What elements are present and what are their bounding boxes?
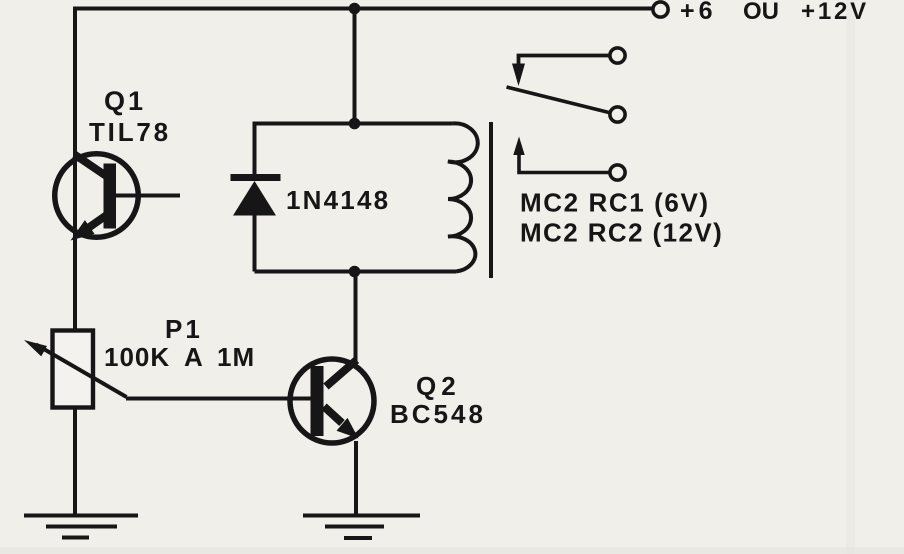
label Q1 [104,86,146,116]
svg-text:+6: +6 [680,0,717,25]
node: junction dot on +V rail above relay [349,3,361,15]
wire: left vertical from +V rail down to P1 (through Q1) [73,7,77,332]
wire: +V rail (top horizontal) [75,7,652,11]
svg-text:+12V: +12V [801,0,869,25]
wire: wiper to Q2 base [126,397,311,401]
svg-text:1N4148: 1N4148 [286,185,390,215]
potentiometer P1 body [53,331,94,408]
ground (right, under Q2) [303,516,420,539]
diode D1 1N4148 [231,174,281,216]
svg-text:MC2 RC1 (6V): MC2 RC1 (6V) [520,188,710,218]
label +6 OU +12V [680,0,869,25]
wire: relay box left vertical lower (diode anode down) [253,214,257,272]
node: junction dot at relay box top [349,118,361,130]
wire: relay box left vertical upper (to diode cathode) [253,122,257,175]
label MC2 RC1 (6V) [520,188,710,218]
label MC2 RC2 (12V) [520,218,723,248]
svg-text:OU: OU [743,0,779,25]
svg-text:P1: P1 [165,314,203,344]
svg-text:MC2 RC2 (12V): MC2 RC2 (12V) [520,218,723,248]
relay contact arm (common pole) [507,87,626,122]
svg-text:A: A [184,342,204,372]
label P1 [165,314,203,344]
wire: P1 bottom to ground [73,407,77,516]
potentiometer P1 wiper arrow [24,340,127,397]
svg-text:Q1: Q1 [104,86,146,116]
wire: relay box bottom horizontal [255,270,457,274]
svg-text:TIL78: TIL78 [89,117,171,147]
svg-text:Q2: Q2 [416,371,461,401]
relay coil K1 [448,123,478,271]
terminal +V (open circle) [653,2,668,17]
svg-text:1M: 1M [217,342,255,372]
label Q2 [416,371,461,401]
wire: Q2 collector vertical (from relay box bottom) [354,272,358,364]
label TIL78 [89,117,171,147]
relay contact NO: up arrow, wire and terminal [513,137,625,181]
ground (left, under P1) [24,516,138,538]
node: junction dot at relay box bottom [349,266,361,278]
svg-text:100K: 100K [104,342,170,372]
label BC548 [390,399,486,429]
relay contact NC: wire with down arrow and terminal [512,48,625,86]
wire: relay box top horizontal [255,122,453,126]
transistor Q2 BC548 [290,359,374,443]
label 1N4148 [286,185,390,215]
wire: Q2 emitter to ground [354,441,358,516]
wire: vertical from junction dot down to relay coil top [353,9,357,124]
relay armature bar [489,122,493,278]
transistor Q1 TIL78 [55,154,180,241]
svg-text:BC548: BC548 [390,399,486,429]
label 100K A 1M [104,342,255,372]
